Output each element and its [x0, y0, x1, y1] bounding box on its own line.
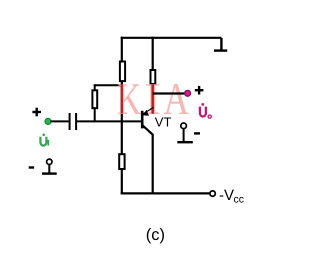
- resistor R1 (upper left bias): [120, 62, 125, 82]
- resistor R4 (emitter load): [151, 70, 156, 84]
- ground (input, below minus): [42, 159, 57, 174]
- ground (output, below terminal): [177, 123, 193, 142]
- resistor R3 (left bias to base): [92, 90, 97, 108]
- label + (input): [32, 108, 41, 117]
- wire R2-top branch: [94, 84, 123, 86]
- watermark KIA: [117, 73, 189, 124]
- label - (input): [29, 166, 34, 168]
- label Ui (green): [40, 134, 48, 146]
- svg-text:cc: cc: [234, 193, 245, 205]
- label - (output): [194, 132, 200, 134]
- capacitor C1: [70, 113, 77, 130]
- wire R3 top lead: [94, 84, 96, 91]
- node -Vcc terminal: [210, 191, 215, 196]
- wire base line: [77, 120, 142, 122]
- node input terminal (green): [45, 118, 51, 124]
- transistor VT collector lead: [143, 126, 153, 194]
- wire red overlap I stem: [151, 85, 154, 114]
- wire top supply rail: [121, 37, 222, 39]
- transistor VT emitter (arrow into base, PNP): [143, 107, 154, 115]
- svg-text:-V: -V: [219, 187, 234, 204]
- wire bottom rail: [121, 192, 210, 194]
- resistor R2 (lower left): [119, 154, 124, 169]
- transistor VT base bar: [141, 111, 144, 129]
- wire left vertical middle (R1 to lower resistor): [121, 81, 123, 155]
- label Uo (magenta): [200, 104, 211, 119]
- ground (top right): [214, 38, 227, 51]
- wire R4 to emitter: [152, 84, 154, 108]
- wire R3 bottom lead: [94, 108, 96, 122]
- wire output (emitter to output terminal): [153, 92, 185, 94]
- wire red overlap K stem: [121, 84, 123, 114]
- label + (output): [195, 86, 204, 95]
- wire left vertical lower (resistor to bottom rail): [121, 169, 123, 194]
- wire left vertical upper (rail to R1): [121, 37, 123, 63]
- svg-text:VT: VT: [155, 114, 172, 129]
- node output terminal (magenta): [185, 90, 191, 96]
- wire right vertical upper (rail to R4): [152, 37, 154, 71]
- svg-text:(c): (c): [146, 226, 165, 244]
- wire input to capacitor: [51, 120, 69, 122]
